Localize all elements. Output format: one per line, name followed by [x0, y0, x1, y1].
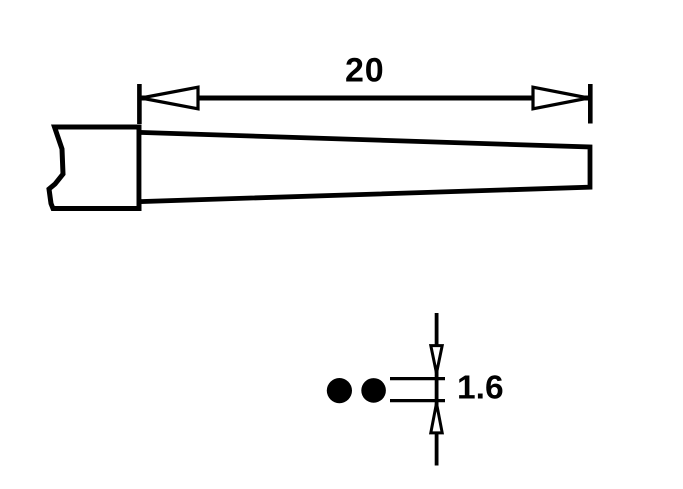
- top extension line 1.6: [390, 377, 445, 380]
- svg-text:1.6: 1.6: [457, 370, 504, 407]
- end-view dot left: [327, 378, 352, 403]
- left arrowhead (open, pointing left): [141, 87, 198, 109]
- tapered jaw outline: [139, 132, 590, 201]
- right arrowhead (open, pointing right): [533, 87, 589, 109]
- bottom arrowhead (open, pointing up): [431, 403, 442, 433]
- svg-text:20: 20: [345, 51, 384, 89]
- dimension line 20: [141, 96, 588, 101]
- end-view dot right: [361, 378, 386, 403]
- top arrowhead (open, pointing down): [431, 346, 442, 374]
- tool body block with break line: [49, 127, 139, 209]
- right extension tick: [588, 84, 593, 124]
- left extension tick: [137, 84, 142, 124]
- bottom extension line 1.6: [390, 399, 445, 402]
- vertical dimension line 1.6: [435, 313, 439, 466]
